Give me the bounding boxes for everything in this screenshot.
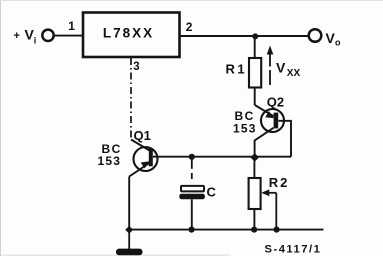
svg-text:V: V [276, 60, 286, 76]
wire R2 bottom to rail [253, 209, 255, 230]
label Vxx [276, 60, 300, 80]
IC U1 L78XX voltage regulator [83, 13, 180, 58]
svg-text:S-4117/1: S-4117/1 [265, 243, 322, 255]
wire pin 3 dash-dot down to Q1 collector [130, 58, 132, 140]
resistor R1 [249, 58, 261, 88]
transistor Q1 (BC153 PNP) [134, 147, 158, 171]
potentiometer R2 body [249, 178, 261, 209]
svg-text:i: i [34, 36, 37, 46]
svg-text:+: + [14, 30, 20, 42]
label BC 153 (Q1) [98, 142, 122, 168]
capacitor C [179, 157, 205, 230]
wire Vi to pin 1 [54, 35, 83, 37]
label +Vi [14, 27, 37, 46]
node rail/wiper [274, 227, 280, 233]
node base line / capacitor junction [189, 154, 195, 160]
R2 wiper arrow [261, 189, 276, 229]
svg-text:1: 1 [68, 19, 75, 33]
transistor Q2 (BC153 PNP) [261, 109, 284, 132]
wire pin 2 to Vo (top rail) [180, 35, 310, 37]
svg-text:L78XX: L78XX [103, 26, 154, 41]
label BC 153 (Q2) [233, 109, 257, 136]
node junction top rail / R1 [252, 33, 258, 39]
border frame bottom [1, 255, 231, 256]
svg-text:153: 153 [98, 154, 122, 168]
arrow Vxx (dashed, pointing up) [267, 46, 274, 86]
svg-text:2: 2 [186, 20, 193, 34]
wire Q2 collector down to base node [255, 128, 274, 157]
svg-text:Q2: Q2 [267, 95, 284, 110]
wire R1 bottom to Q2 emitter [255, 88, 274, 117]
terminal Vo [309, 29, 322, 42]
wire Q1 collector diagonal [131, 140, 150, 151]
wire bottom rail [129, 229, 323, 231]
node rail/C [189, 227, 195, 233]
label Vo [326, 30, 342, 48]
node base line / R2 junction [250, 153, 259, 162]
wire Q2 base right and down [278, 121, 291, 157]
svg-text:o: o [335, 38, 341, 48]
wire base node to R2 top [253, 157, 255, 178]
svg-text:R2: R2 [269, 175, 290, 190]
ground [116, 230, 143, 256]
svg-text:R1: R1 [226, 62, 248, 77]
svg-text:V: V [326, 30, 336, 46]
node rail/R2 [251, 227, 257, 233]
svg-text:153: 153 [233, 122, 257, 136]
node rail/Q1 emitter [125, 226, 133, 234]
wire Q1 emitter diagonal and down [129, 163, 149, 230]
wire base node horizontal (Q1 base to Q2 base) [153, 156, 291, 158]
terminal Vi [42, 30, 53, 41]
svg-text:XX: XX [287, 68, 301, 79]
svg-text:Q1: Q1 [134, 128, 151, 143]
svg-text:C: C [207, 185, 217, 200]
svg-text:3: 3 [133, 61, 139, 73]
wire junction to R1 top [254, 36, 256, 59]
